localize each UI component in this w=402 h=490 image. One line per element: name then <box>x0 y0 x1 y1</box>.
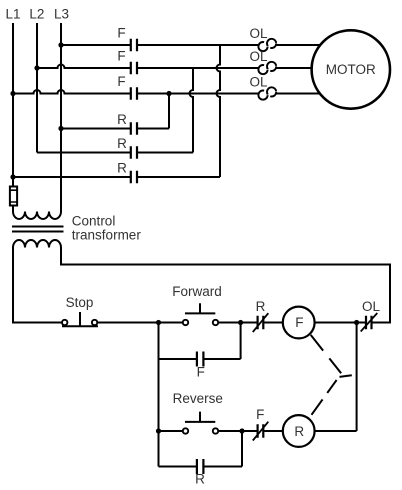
pushbutton Reverse (NO) <box>183 412 218 434</box>
overload heater OL3 label <box>249 75 268 90</box>
wire row 3 (OL3 to motor) <box>276 93 320 95</box>
wire R auxiliary rung <box>159 431 243 467</box>
junction dot reverse rung/left rail <box>156 428 161 433</box>
overload heater OL1 label <box>249 26 268 41</box>
pushbutton Stop label <box>66 295 94 310</box>
wire secondary left lead to stop <box>13 248 62 323</box>
wire reverse button to F contact <box>218 430 257 432</box>
contact F auxiliary label <box>197 365 205 380</box>
contact F (NC) in reverse rung <box>253 422 268 441</box>
svg-text:transformer: transformer <box>72 228 142 243</box>
contact R2 label <box>117 136 127 151</box>
wire row 3 (L1 to OL3, hops over L2 and L3) <box>13 90 258 94</box>
contact R1 <box>131 122 137 134</box>
contact OL label <box>362 299 381 314</box>
contact F1 <box>131 39 137 51</box>
wire row 2 (L2 to OL2, hop over L3) <box>37 65 258 69</box>
motor M <box>312 30 390 108</box>
junction dot reverse rung/right branch <box>239 428 244 433</box>
wire R1 row (L3 down-branch row) <box>61 128 169 130</box>
junction dot R1/L3 <box>58 126 63 131</box>
contact F3 label <box>117 74 125 89</box>
node L1 label <box>5 7 20 22</box>
contact R label <box>256 299 266 314</box>
wire L1 vertical <box>12 23 14 212</box>
wire L2 vertical <box>36 23 38 153</box>
wire reverse rung left <box>159 430 183 432</box>
coil R label <box>294 424 304 439</box>
wire vertical C (row2 to R2 row, hop over row3) <box>190 68 193 153</box>
contact F auxiliary <box>197 352 204 367</box>
wire row 1 (L3 to OL1) <box>61 44 258 46</box>
node L2 label <box>29 7 44 22</box>
coil F <box>283 307 315 339</box>
junction dot stop row/right branch <box>238 320 243 325</box>
fuse FU <box>10 187 17 206</box>
svg-text:F: F <box>117 74 125 89</box>
contact R2 <box>131 146 137 158</box>
svg-text:OL: OL <box>249 75 268 90</box>
wire row 2 (OL2 to motor) <box>276 67 312 69</box>
contact F1 label <box>117 26 125 41</box>
wire vertical D (row3 to R1 row) <box>168 94 170 129</box>
control transformer core <box>12 227 64 232</box>
pushbutton Reverse label <box>173 391 223 406</box>
contact R auxiliary label <box>195 472 205 487</box>
svg-text:L1: L1 <box>5 7 20 22</box>
svg-text:Forward: Forward <box>172 284 222 299</box>
wire F auxiliary rung <box>159 323 241 360</box>
contact F2 <box>131 62 137 74</box>
contact OL (NC) <box>361 313 378 332</box>
svg-text:R: R <box>256 299 266 314</box>
svg-text:F: F <box>117 49 125 64</box>
svg-text:Reverse: Reverse <box>173 391 223 406</box>
junction dot stop row/R coil branch <box>354 320 359 325</box>
motor M label <box>326 62 376 77</box>
wire secondary right lead to right rail <box>61 248 390 323</box>
svg-text:MOTOR: MOTOR <box>326 62 376 77</box>
wire left branch rail <box>158 323 160 467</box>
control transformer secondary winding <box>13 240 61 248</box>
wire R2 row <box>37 152 193 154</box>
svg-text:F: F <box>117 26 125 41</box>
wire R contact to coil F <box>263 322 283 324</box>
wire coil F to OL contact <box>315 322 366 324</box>
wire row 1 (OL1 to motor) <box>276 44 321 46</box>
overload heater OL1 <box>258 39 276 51</box>
junction dot row2/L2 <box>34 65 39 70</box>
svg-text:F: F <box>256 407 264 422</box>
wire vertical B (row1 to R3 row, hops over row2 and row3) <box>217 45 220 177</box>
svg-text:R: R <box>117 136 127 151</box>
junction dot row3/L1 <box>10 91 15 96</box>
junction dot row3/D <box>166 91 171 96</box>
pushbutton Forward label <box>172 284 222 299</box>
svg-text:R: R <box>117 161 127 176</box>
wire F contact to coil R <box>263 430 283 432</box>
overload heater OL2 <box>258 62 276 74</box>
coil R <box>283 415 315 447</box>
wire stop to forward <box>97 322 183 324</box>
svg-text:L2: L2 <box>29 7 44 22</box>
svg-text:Stop: Stop <box>66 295 94 310</box>
wire L3 vertical <box>60 23 62 212</box>
contact R3 <box>131 171 137 183</box>
overload heater OL3 <box>258 87 276 99</box>
pushbutton Stop (NC) <box>62 312 98 326</box>
svg-text:R: R <box>117 112 127 127</box>
wire R3 row <box>13 176 220 178</box>
svg-text:L3: L3 <box>54 7 69 22</box>
control transformer primary winding <box>13 212 61 220</box>
svg-text:F: F <box>295 315 303 330</box>
junction dot R3/L1 <box>10 174 15 179</box>
contact R3 label <box>117 161 127 176</box>
svg-text:OL: OL <box>249 26 268 41</box>
svg-text:R: R <box>294 424 304 439</box>
wire forward to R contact <box>218 322 257 324</box>
overload heater OL2 label <box>249 49 268 64</box>
contact F3 <box>131 87 137 99</box>
contact R1 label <box>117 112 127 127</box>
control transformer label <box>72 214 142 243</box>
svg-text:Control: Control <box>72 214 116 229</box>
junction dot stop row/left branch <box>156 320 161 325</box>
svg-text:OL: OL <box>249 49 268 64</box>
wire coil R to stop row <box>315 323 357 432</box>
contact F2 label <box>117 49 125 64</box>
svg-text:R: R <box>195 472 205 487</box>
contact R (NC) in forward rung <box>253 313 268 332</box>
junction dot row1/L3 <box>58 42 63 47</box>
svg-text:F: F <box>197 365 205 380</box>
node L3 label <box>54 7 69 22</box>
contact F label reverse rung <box>256 407 264 422</box>
mechanical interlock dashed link <box>311 335 352 415</box>
svg-text:OL: OL <box>362 299 381 314</box>
contact R auxiliary <box>197 459 204 474</box>
pushbutton Forward (NO) <box>183 303 218 325</box>
coil F label <box>295 315 303 330</box>
